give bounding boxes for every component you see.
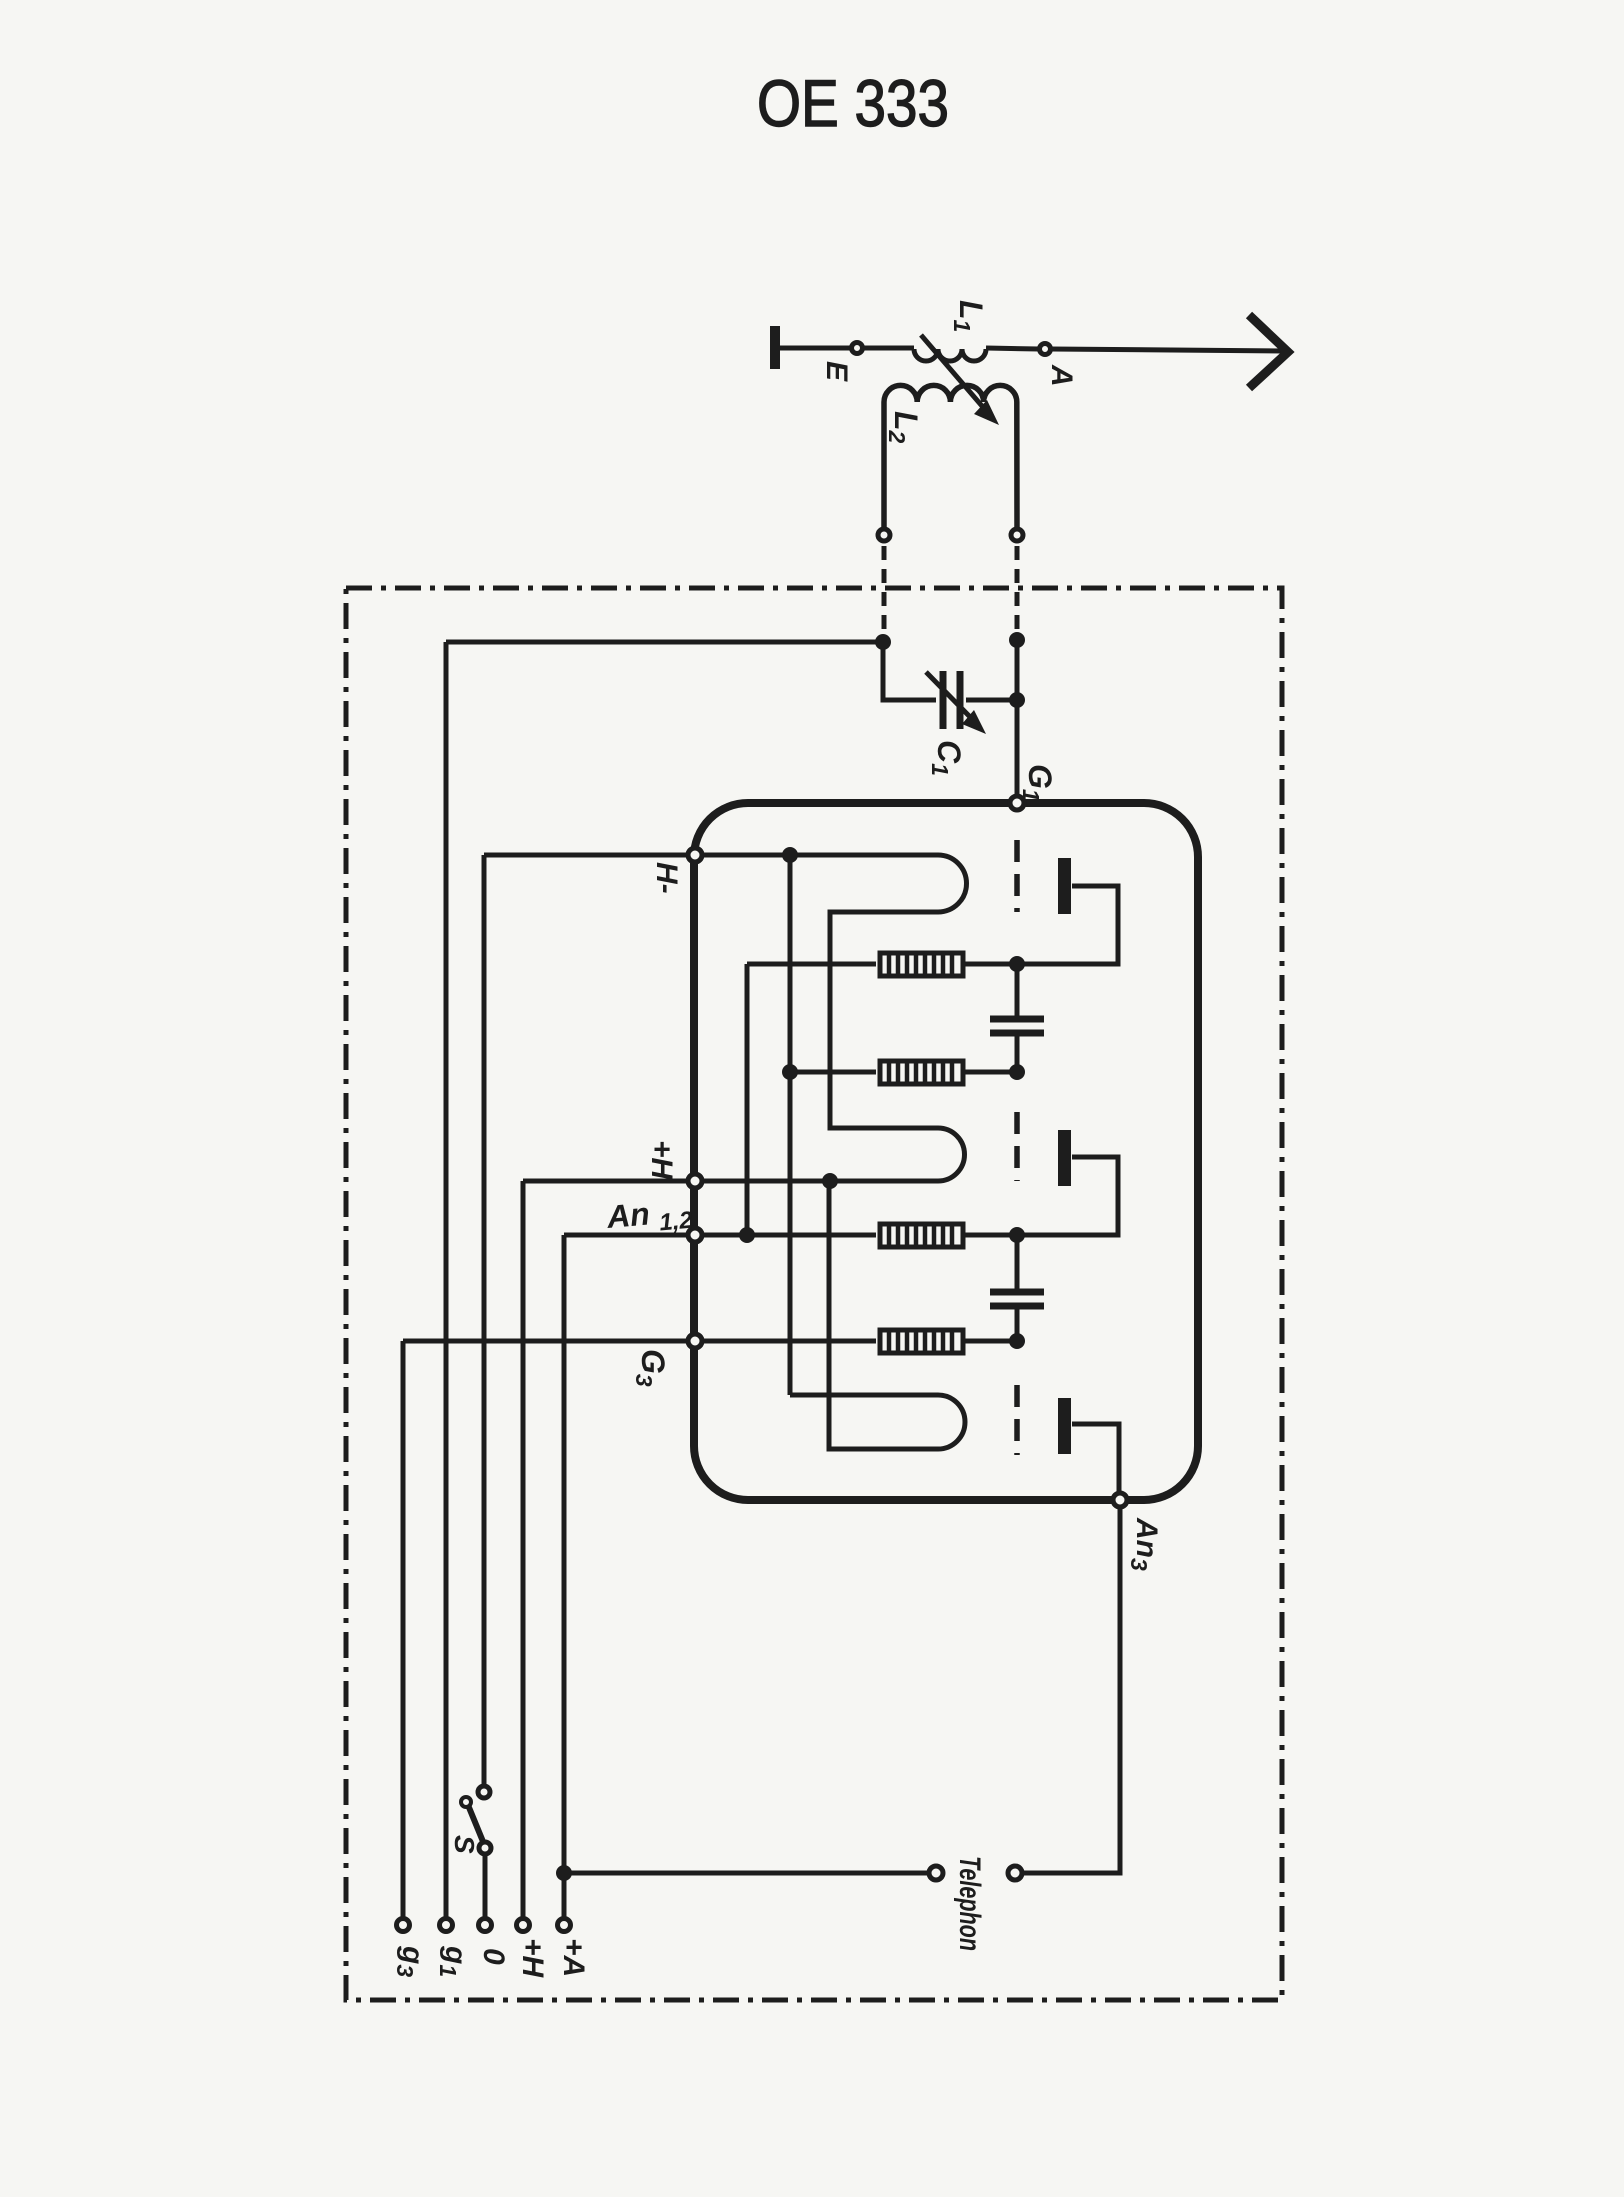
svg-text:S: S	[449, 1835, 480, 1854]
C1 variable arrow	[926, 672, 975, 722]
wire R3 to anode2 node	[963, 1157, 1118, 1235]
terminal g1	[440, 1919, 453, 1932]
anode 2 plate	[1058, 1130, 1071, 1186]
terminal g3	[397, 1919, 410, 1932]
wire R1 to anode1 node	[963, 886, 1118, 964]
resistor R2	[880, 1061, 963, 1084]
terminal H+	[688, 1174, 702, 1188]
inductor L2	[884, 385, 1017, 528]
terminal An3	[1113, 1493, 1127, 1507]
junction anode2 node	[1009, 1227, 1025, 1243]
capacitor C1 plate right	[957, 671, 964, 729]
junction anode1 node	[1009, 956, 1025, 972]
junction C1 right	[1009, 692, 1025, 708]
switch S lower contact	[479, 1842, 491, 1854]
wire telephon right to An3	[1022, 1507, 1120, 1873]
resistor R4	[880, 1330, 963, 1353]
wire An1,2	[564, 1233, 876, 1238]
svg-text:0: 0	[477, 1948, 510, 1965]
switch S upper contact	[478, 1786, 490, 1798]
wire earth to E	[780, 346, 851, 351]
resistor R1	[880, 953, 963, 976]
earth terminal bar	[770, 326, 780, 369]
wire g3 vertical	[401, 1341, 406, 1918]
terminal Telephon right	[1008, 1866, 1022, 1880]
dashed lead L2 left into set	[882, 546, 887, 634]
terminal G1	[1010, 796, 1024, 810]
junction R2 left	[782, 1064, 798, 1080]
inductor L1	[914, 349, 986, 361]
junction An12/R1	[739, 1227, 755, 1243]
svg-text:A: A	[1045, 364, 1078, 387]
wire g1 horizontal	[446, 640, 883, 645]
wire L1 to A	[986, 348, 1039, 349]
grid leak resistor R2 wire	[790, 1070, 876, 1075]
svg-text:OE 333: OE 333	[757, 66, 949, 140]
wire E to L1	[863, 346, 914, 351]
wire anode3 to An3	[1072, 1424, 1119, 1496]
terminal G3	[688, 1334, 702, 1348]
terminal Telephon left	[929, 1866, 943, 1880]
tube 3NF envelope	[694, 803, 1198, 1500]
wire A vertical	[562, 1235, 567, 1918]
grid 2 electrode dashed	[1014, 1112, 1020, 1181]
junction grid3 node	[1009, 1333, 1025, 1349]
resistor R3	[880, 1224, 963, 1247]
wire to telephon left	[564, 1871, 929, 1876]
svg-text:E: E	[820, 361, 853, 382]
variometer arrow through L1 L2	[921, 335, 988, 413]
dashed lead L2 right into set	[1015, 546, 1020, 634]
terminal E	[852, 343, 863, 354]
wire 0 vertical upper	[482, 855, 487, 1786]
capacitor C1 plate left	[940, 671, 947, 729]
wire H vertical	[521, 1181, 526, 1918]
terminal 0	[479, 1919, 492, 1932]
terminal H-	[688, 848, 702, 862]
antenna arrowhead	[1249, 315, 1288, 388]
wire 0 to H-	[484, 853, 688, 858]
junction H+ node	[822, 1173, 838, 1189]
wire node to C1	[883, 642, 936, 700]
junction L2 right node	[1009, 632, 1025, 648]
svg-text:H-: H-	[650, 862, 683, 894]
anode 3 plate	[1058, 1398, 1071, 1454]
terminal H+ supply	[517, 1919, 530, 1932]
wire C1 to grid node	[966, 698, 1017, 703]
wire G3	[403, 1339, 876, 1344]
coupling capacitor Ck1	[990, 1016, 1044, 1023]
filament 1 and 2	[702, 855, 967, 1181]
grid 3 electrode dashed	[1014, 1385, 1020, 1455]
coupling capacitor Ck2	[990, 1289, 1044, 1296]
junction H- node	[782, 847, 798, 863]
wire H+ horizontal	[523, 1179, 688, 1184]
wire g1 vertical	[444, 642, 449, 1918]
svg-text:+A: +A	[557, 1938, 590, 1977]
terminal A+ supply	[558, 1919, 571, 1932]
wire H- node down to filament 3	[788, 855, 793, 1395]
switch S lever	[468, 1805, 484, 1844]
svg-text:+H: +H	[645, 1140, 678, 1181]
anode 1 plate	[1058, 858, 1071, 914]
terminal L2 left	[878, 529, 890, 541]
terminal A	[1040, 344, 1051, 355]
junction A/Telephon	[556, 1865, 572, 1881]
wire A to antenna arrow	[1051, 349, 1283, 351]
wire 0 vertical lower	[483, 1854, 488, 1918]
junction node g1/L2	[875, 634, 891, 650]
junction grid2 node	[1009, 1064, 1025, 1080]
terminal An1,2	[688, 1228, 702, 1242]
svg-text:Telephon: Telephon	[953, 1856, 986, 1951]
svg-text:+H: +H	[516, 1938, 549, 1979]
anode resistor R1 feed wire	[747, 962, 876, 967]
grid 1 electrode dashed	[1014, 840, 1020, 912]
wire node to G1	[1015, 640, 1020, 797]
terminal L2 right	[1011, 529, 1023, 541]
chassis boundary dash-dot border	[346, 588, 1282, 2000]
filament 3	[790, 1181, 965, 1449]
